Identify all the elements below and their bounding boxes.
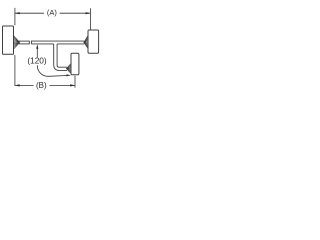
top-right connector body [88,30,99,53]
bottom connector strain relief (hatched fan) [66,64,70,74]
dimension 120 curved leader with arrow to bottom connector [37,65,71,76]
svg-text:(120): (120) [27,56,47,66]
top-right connector strain relief (hatched fan) [84,35,88,49]
branch cable (drop + bend) [54,44,67,71]
dimension B extension line right [74,76,76,88]
dimension B extension line left [14,55,16,86]
bottom-right connector body [71,53,79,75]
dimension A extension line right [89,8,91,30]
dimension 120 label [27,56,47,66]
dimension A line with arrows [15,12,91,14]
svg-text:(A): (A) [47,8,58,17]
left connector body [3,26,14,54]
dimension B line with arrows [15,84,75,86]
dimension 120 up arrow to cable [36,44,38,57]
left connector strain relief (hatched fan) [14,36,20,49]
svg-text:(B): (B) [36,81,47,90]
dimension A label [47,8,58,17]
main cable segment [31,41,84,44]
dimension A extension line left [14,8,16,25]
cable segment 1 [19,41,29,44]
dimension B label [36,81,47,90]
